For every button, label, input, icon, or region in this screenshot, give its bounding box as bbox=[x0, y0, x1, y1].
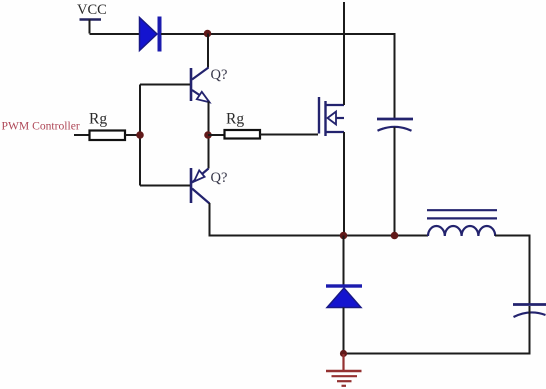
resistor Rg2 body bbox=[225, 130, 261, 139]
wire: MOSFET drain up to top edge bbox=[343, 2, 345, 105]
svg-text:Q?: Q? bbox=[211, 170, 228, 186]
wire: emitter node to Rg2 bbox=[208, 134, 224, 136]
svg-text:PWM Controller: PWM Controller bbox=[2, 120, 80, 133]
transistor Q1 (NPN, upper driver) bbox=[191, 68, 210, 103]
inductor L1 winding bbox=[428, 226, 495, 236]
ground bbox=[326, 354, 362, 386]
node A junction dot (diode/driver rail) bbox=[204, 30, 212, 38]
wire: C1 bottom to rail bbox=[394, 127, 396, 236]
wire: D2 anode down to ground node bbox=[343, 308, 345, 354]
transistor Q2 (PNP, lower driver) bbox=[191, 168, 210, 204]
node C junction dot (emitter tie) bbox=[204, 131, 212, 139]
wire: left vertical bus (bases tie) bbox=[139, 85, 141, 186]
node E junction dot (C1/rail) bbox=[391, 232, 399, 240]
inductor L1 core lines bbox=[427, 210, 497, 218]
capacitor C1 (VCC bypass) bbox=[377, 119, 413, 131]
svg-text:Q?: Q? bbox=[211, 67, 228, 83]
resistor Rg1 body bbox=[90, 131, 126, 141]
svg-text:VCC: VCC bbox=[77, 2, 107, 18]
wire: Q2 base lead bbox=[140, 185, 190, 187]
wire: inductor to right rail bbox=[495, 236, 530, 304]
wire: Q1 emitter / Q2 emitter vertical bbox=[208, 102, 210, 169]
wire: top rail corner down to C1 bbox=[394, 33, 396, 119]
svg-text:Rg: Rg bbox=[89, 111, 107, 128]
wire: Q2 collector down to output rail bbox=[210, 203, 429, 236]
wire: diode cathode to node A bbox=[161, 33, 395, 35]
node D junction dot (source/rail) bbox=[340, 232, 348, 240]
wire: Q1 base lead bbox=[140, 84, 190, 86]
wire: MOSFET source down to rail bbox=[343, 132, 345, 236]
capacitor C2 (output) bbox=[513, 305, 546, 318]
wire top: VCC to diode anode bbox=[90, 33, 141, 35]
wire: rail down to D2 bbox=[343, 236, 345, 286]
diode D1 (series blocking diode) bbox=[140, 17, 162, 52]
svg-text:Rg: Rg bbox=[226, 111, 244, 128]
node B junction dot (base bus) bbox=[136, 131, 144, 139]
wire: node A down to Q1 collector bbox=[207, 34, 209, 68]
power VCC symbol bbox=[80, 20, 102, 34]
wire: input stub bbox=[74, 134, 89, 136]
node F junction dot (ground node) bbox=[340, 350, 347, 357]
diode D2 (freewheeling) bbox=[326, 284, 362, 307]
transistor U1 (N-MOSFET) bbox=[319, 97, 344, 136]
wire: Rg2 to MOSFET gate bbox=[260, 134, 318, 136]
wire: Rg1 to base bus bbox=[125, 134, 140, 136]
wire: C2 bottom to bottom rail bbox=[344, 306, 530, 354]
